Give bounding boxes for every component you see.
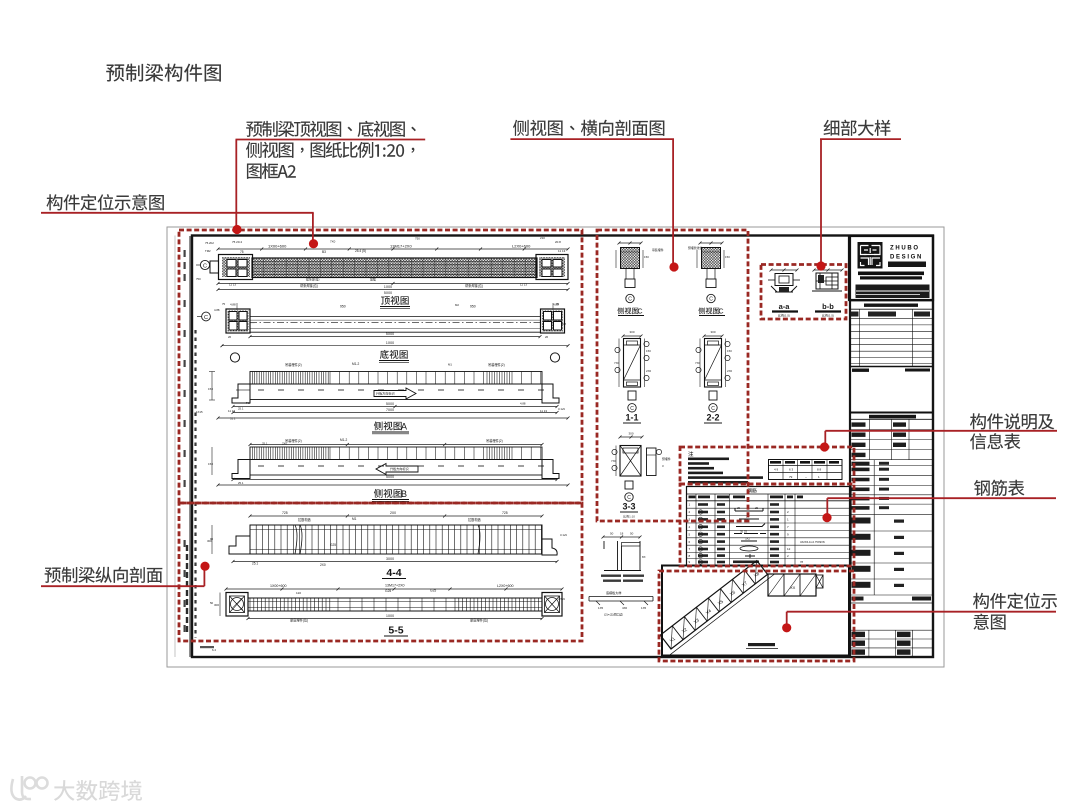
notes text lines <box>688 458 729 461</box>
svg-text:8X: 8X <box>642 555 646 559</box>
leader: side/cross section views label <box>510 138 674 140</box>
beam4 left dim ticks <box>211 447 213 475</box>
svg-text:C: C <box>628 297 632 303</box>
label: 钢筋表 <box>974 480 1024 496</box>
svg-text:4 9: 4 9 <box>774 468 779 472</box>
title block divider under logo <box>849 299 933 301</box>
leader: longitudinal section label <box>41 585 204 587</box>
svg-text:75: 75 <box>240 250 244 254</box>
svg-text:79: 79 <box>789 475 793 479</box>
red dashed box: location diagram <box>659 571 854 661</box>
svg-text:4.88: 4.88 <box>553 303 559 307</box>
svg-text:1X00: 1X00 <box>384 285 392 289</box>
svg-text:300: 300 <box>214 603 219 607</box>
svg-text:210: 210 <box>540 236 545 240</box>
svg-text:11 13: 11 13 <box>540 409 547 413</box>
beam6 top dimension line <box>226 588 562 590</box>
beam side view B (侧视图B) ribbed band <box>250 447 542 460</box>
bottom mini table <box>850 629 933 631</box>
svg-text:13M17+2X0: 13M17+2X0 <box>385 584 404 588</box>
svg-text:2X0: 2X0 <box>390 511 396 515</box>
svg-text:7X0: 7X0 <box>614 361 620 365</box>
leader: detail enlargement label <box>820 138 901 140</box>
svg-text:11 13: 11 13 <box>228 409 235 413</box>
label: 构件说明及信息表 <box>970 413 1054 429</box>
svg-text:110: 110 <box>296 591 301 595</box>
svg-text:L2X0+600: L2X0+600 <box>512 244 531 249</box>
beam1 bottom dimension lines <box>218 283 568 285</box>
svg-text:2X0: 2X0 <box>282 442 287 446</box>
svg-text:25.1: 25.1 <box>238 407 244 411</box>
beam5 denser hooks <box>295 525 297 554</box>
svg-text:L2X0+600: L2X0+600 <box>497 584 514 588</box>
beam side view B right end corbel <box>542 460 559 479</box>
svg-text:7X00: 7X00 <box>386 408 394 412</box>
sheet title row <box>864 304 918 307</box>
svg-text:3.1v9: 3.1v9 <box>558 407 565 411</box>
left margin tiny vertical notes <box>184 250 186 257</box>
svg-text:C: C <box>203 263 207 269</box>
section 侧视图C no.1 <box>619 242 641 244</box>
beam4 dimension lines below <box>233 479 557 481</box>
svg-text:4X0: 4X0 <box>622 606 628 610</box>
svg-text:C: C <box>630 406 634 412</box>
svg-text:M1: M1 <box>352 517 357 521</box>
info table middle rows <box>850 465 933 467</box>
company name lines <box>858 272 924 276</box>
svg-text:4.88: 4.88 <box>214 308 220 312</box>
svg-text:75: 75 <box>222 302 226 306</box>
svg-text:150: 150 <box>725 255 730 259</box>
svg-text:拉筋构造: 拉筋构造 <box>468 517 482 522</box>
beam5 left dim ticks <box>211 525 213 554</box>
svg-text:51.1: 51.1 <box>230 417 236 421</box>
svg-text:90: 90 <box>210 537 214 541</box>
info table header <box>869 415 916 419</box>
svg-text:25.1: 25.1 <box>262 442 268 446</box>
svg-text:1X00+600: 1X00+600 <box>270 584 287 588</box>
svg-text:7X0: 7X0 <box>611 459 617 463</box>
svg-text:300: 300 <box>629 330 634 334</box>
svg-text:25: 25 <box>737 506 741 510</box>
svg-text:5X00: 5X00 <box>386 402 394 406</box>
beam2 label 底视图 <box>380 350 408 359</box>
rebar table column lines <box>695 494 697 565</box>
svg-text:比例(1:5): 比例(1:5) <box>822 313 834 318</box>
svg-text:5X00: 5X00 <box>386 332 394 336</box>
svg-text:B: B <box>401 489 407 499</box>
svg-text:150: 150 <box>727 349 732 353</box>
svg-text:1X00: 1X00 <box>386 341 394 345</box>
svg-text:20.8: 20.8 <box>555 240 561 244</box>
cross section 3-3 figure <box>620 436 642 438</box>
beam top view (顶视图) hatched body <box>252 258 537 278</box>
label: 侧视图、横向剖面图 <box>513 120 664 136</box>
red dashed box: notes and info <box>680 447 854 484</box>
svg-text:300: 300 <box>710 330 715 334</box>
leader: component location sketch label <box>41 212 314 214</box>
svg-text:C: C <box>637 309 642 316</box>
rebar table header row <box>687 493 852 495</box>
svg-text:预埋管线位: 预埋管线位 <box>688 245 703 250</box>
svg-text:75.2b2: 75.2b2 <box>205 241 214 245</box>
beam2 small circles under ends <box>230 353 239 362</box>
svg-text:5X00: 5X00 <box>386 475 394 479</box>
leader: rebar table label <box>827 497 1056 499</box>
rebar table row lines <box>687 507 852 509</box>
svg-text:150: 150 <box>208 387 213 391</box>
svg-text:50: 50 <box>210 601 214 605</box>
svg-text:78: 78 <box>800 560 803 564</box>
label: 构件定位示意图 (top left) <box>47 194 164 210</box>
svg-text:(2)×(2)洞口边: (2)×(2)洞口边 <box>604 612 624 617</box>
info table upper rows <box>850 428 933 430</box>
svg-text:预埋件: 预埋件 <box>662 456 671 461</box>
red dashed box: longitudinal sections group <box>179 503 582 641</box>
svg-text:1-1: 1-1 <box>625 413 638 423</box>
beam6 left end block <box>226 593 248 617</box>
drawing black frame <box>192 236 933 658</box>
grid bubble C beam1 <box>200 260 209 269</box>
red dashed box: cross sections column <box>597 230 748 521</box>
svg-text:5X00: 5X00 <box>384 291 392 295</box>
detail b-b figure <box>814 269 842 271</box>
watermark text 大数跨境 <box>54 780 142 801</box>
svg-text:6.4: 6.4 <box>212 648 216 652</box>
svg-text:26: 26 <box>228 335 232 339</box>
beam top view left stub <box>210 261 219 273</box>
svg-text:750: 750 <box>415 237 420 241</box>
svg-text:C: C <box>204 315 208 321</box>
svg-text:2X0: 2X0 <box>320 563 326 567</box>
grid bubble C beam2 <box>202 312 211 321</box>
svg-text:725: 725 <box>282 511 288 515</box>
svg-text:吊装埋件(2): 吊装埋件(2) <box>488 362 505 367</box>
beam3 dimension lines below <box>233 406 557 408</box>
svg-text:C: C <box>709 297 713 303</box>
svg-text:XX: XX <box>790 585 796 590</box>
beam3 left dim ticks <box>211 372 213 401</box>
svg-text:Z H U B O: Z H U B O <box>890 246 918 252</box>
svg-text:25.1: 25.1 <box>252 562 258 566</box>
svg-text:4.5k9: 4.5k9 <box>558 597 565 601</box>
location diagram horizontal part <box>768 574 816 596</box>
detail a-a figure <box>771 269 797 271</box>
svg-text:1X00+600: 1X00+600 <box>268 244 287 249</box>
beam5 top dimension line <box>250 515 542 517</box>
svg-text:2X0: 2X0 <box>646 369 652 373</box>
beam section 5-5 body <box>248 598 542 611</box>
svg-text:1X00: 1X00 <box>386 614 394 618</box>
svg-text:比例1:10: 比例1:10 <box>623 514 635 519</box>
cross section 2-2 figure <box>704 335 722 337</box>
svg-text:吊装埋件(2): 吊装埋件(2) <box>486 438 503 443</box>
beam side view B direction arrow (left) <box>376 464 418 475</box>
svg-text:A: A <box>401 422 407 432</box>
svg-text:11 13: 11 13 <box>229 283 236 287</box>
svg-text:3X00: 3X00 <box>386 557 394 561</box>
beam side view A direction arrow <box>374 388 416 399</box>
red dashed box: rebar table <box>680 484 854 566</box>
beam side view B left end corbel <box>232 460 250 479</box>
svg-text:吊装埋件: 吊装埋件 <box>652 247 664 252</box>
svg-text:帮条焊接(位): 帮条焊接(位) <box>465 283 483 288</box>
beam top view left end block <box>219 255 253 280</box>
svg-text:18: 18 <box>620 532 624 536</box>
svg-text:13M17+2X0: 13M17+2X0 <box>390 244 412 249</box>
label: 预制梁纵向剖面 <box>45 567 163 583</box>
svg-text:1X15: 1X15 <box>196 410 203 414</box>
binding-edge vertical text strip <box>194 330 196 638</box>
logo seal glyph <box>858 242 883 269</box>
svg-text:7X0: 7X0 <box>695 361 701 365</box>
svg-text:比例(1:5): 比例(1:5) <box>778 313 790 318</box>
svg-text:M2: M2 <box>455 303 459 307</box>
beam3 label 侧视图A <box>374 421 402 430</box>
leader: top/bottom/side views label <box>236 139 426 141</box>
svg-text:3-3: 3-3 <box>622 502 635 512</box>
svg-text:26: 26 <box>545 335 549 339</box>
svg-text:升板方向标识: 升板方向标识 <box>390 466 409 471</box>
address dense block <box>856 285 930 299</box>
svg-text:4-4: 4-4 <box>386 567 401 579</box>
svg-text:75 20.4: 75 20.4 <box>232 240 242 244</box>
label: 细部大样 <box>824 120 891 136</box>
beam6 left dim ticks <box>219 593 221 617</box>
page title 预制梁构件图 <box>106 64 221 82</box>
location diagram caption <box>748 643 775 646</box>
svg-text:8.8: 8.8 <box>562 322 566 326</box>
title block logo box <box>849 236 933 300</box>
svg-text:5-5: 5-5 <box>388 625 403 637</box>
svg-text:b-b: b-b <box>822 302 834 311</box>
svg-text:950: 950 <box>340 305 346 309</box>
project number row <box>850 602 933 604</box>
T-profile detail figure <box>603 536 640 538</box>
svg-text:8 8: 8 8 <box>817 468 822 472</box>
location diagram end X piece <box>816 575 823 588</box>
label: 构件定位示意图 (bottom right) <box>973 593 1057 609</box>
svg-text:2X0: 2X0 <box>727 369 733 373</box>
beam side view A lower band <box>250 384 542 400</box>
svg-text:TM2: TM2 <box>205 249 211 253</box>
svg-text:--: -- <box>805 475 807 479</box>
sheet outer gray border <box>167 227 944 667</box>
rebar table (钢筋表) frame <box>687 487 852 566</box>
svg-text:帮条焊接(位): 帮条焊接(位) <box>300 283 318 288</box>
beam1 label 顶视图 <box>381 296 409 305</box>
notes title 注 <box>688 451 693 456</box>
beam5 bottom dimension <box>233 561 557 563</box>
svg-text:G25: G25 <box>330 543 336 547</box>
svg-text:帮条焊(位): 帮条焊(位) <box>306 277 320 282</box>
section 侧视图C no.2 <box>700 242 722 244</box>
leader: location diagram label <box>787 611 1056 613</box>
svg-text:12: 12 <box>787 547 791 551</box>
label: 预制梁顶视图、底视图、侧视图，图纸比例1:20，图框A2 <box>246 121 416 137</box>
svg-text:4.88: 4.88 <box>520 402 526 406</box>
svg-text:加强: 加强 <box>370 277 376 282</box>
svg-text:4X2X6-11-0.75X9X8.: 4X2X6-11-0.75X9X8. <box>800 540 825 544</box>
svg-text:拉筋构造: 拉筋构造 <box>298 517 312 522</box>
svg-text:吊装埋件(2): 吊装埋件(2) <box>285 362 302 367</box>
svg-text:2-2: 2-2 <box>706 413 719 423</box>
beam side view B lower band <box>250 460 542 476</box>
info table lower rows <box>850 530 933 532</box>
svg-text:梁底埋件(位): 梁底埋件(位) <box>290 618 308 623</box>
beam2 dimension lines <box>250 336 540 338</box>
svg-text:TM: TM <box>246 401 251 405</box>
beam6 bottom dimension <box>248 618 542 620</box>
svg-text:梁底埋件(位): 梁底埋件(位) <box>470 618 488 623</box>
svg-text:11 13: 11 13 <box>520 283 527 287</box>
svg-text:D E S I G N: D E S I G N <box>890 255 921 261</box>
svg-text:25: 25 <box>755 506 759 510</box>
notes mini table <box>769 460 843 480</box>
svg-text:3.1v9: 3.1v9 <box>560 533 567 537</box>
svg-text:300: 300 <box>628 432 633 436</box>
svg-text:G25: G25 <box>430 589 436 593</box>
beam section 4-4 stirrup cage <box>250 525 542 554</box>
svg-text:50: 50 <box>630 532 634 536</box>
cross section 1-1 figure <box>623 335 641 337</box>
svg-text:35 25: 35 25 <box>740 530 747 534</box>
beam side view A (侧视图A) ribbed band <box>250 372 542 385</box>
svg-text:B3: B3 <box>322 250 326 254</box>
signature area empty box <box>850 412 933 414</box>
svg-text:1X5: 1X5 <box>598 606 604 610</box>
beam1 top dimension line <box>218 248 568 250</box>
svg-text:25.4 (5): 25.4 (5) <box>355 249 366 253</box>
svg-text:150: 150 <box>644 255 649 259</box>
svg-text:升板方向标识: 升板方向标识 <box>376 391 395 396</box>
svg-text:11 13: 11 13 <box>558 249 566 253</box>
svg-text:50: 50 <box>610 532 614 536</box>
location diagram black border <box>662 566 849 656</box>
beam bottom view left end block <box>226 309 250 333</box>
svg-text:C: C <box>718 309 723 316</box>
svg-text:G25: G25 <box>385 589 391 593</box>
svg-text:150: 150 <box>208 462 213 466</box>
beam bottom view right end block <box>541 309 565 333</box>
title block left edge <box>849 236 851 658</box>
svg-text:725: 725 <box>502 511 508 515</box>
svg-text:150: 150 <box>646 349 651 353</box>
beam6 right end block <box>542 593 562 617</box>
signature area header <box>852 369 869 372</box>
location diagram diagonal ladder <box>656 557 775 656</box>
leader: component notes and info table label <box>825 430 1057 432</box>
beam5 right end hook <box>542 539 557 555</box>
sheet inner gray margin line <box>174 236 176 658</box>
beam bottom view (底视图) body outline <box>250 316 541 318</box>
beam side view A right end corbel <box>542 384 559 403</box>
svg-text:950: 950 <box>470 305 476 309</box>
svg-text:1X5: 1X5 <box>641 606 647 610</box>
svg-text:吊装埋件(2): 吊装埋件(2) <box>285 438 302 443</box>
red dashed box: plan/side views group <box>179 230 582 503</box>
svg-text:4.88: 4.88 <box>230 303 236 307</box>
T-profile caption lines <box>601 575 621 577</box>
svg-text:M1-2: M1-2 <box>352 362 359 366</box>
svg-text:3X2: 3X2 <box>745 537 750 541</box>
svg-text:C: C <box>627 495 631 501</box>
svg-text:25.1: 25.1 <box>238 481 244 485</box>
svg-text:底模板大样: 底模板大样 <box>606 590 621 595</box>
svg-text:a-a: a-a <box>779 302 791 311</box>
rebar shape glyphs <box>735 508 763 511</box>
svg-text:M1: M1 <box>448 363 452 367</box>
red dashed box: details a-a b-b <box>761 265 846 320</box>
beam5 left end step <box>229 536 250 554</box>
svg-text:7X0: 7X0 <box>330 240 336 244</box>
svg-text:M1-2: M1-2 <box>340 438 347 442</box>
svg-text:750: 750 <box>196 277 201 281</box>
beam4 label 侧视图B <box>374 489 402 498</box>
logo chinese row <box>888 262 926 268</box>
beam top view right end block <box>536 255 568 280</box>
watermark logo glyph <box>11 776 47 800</box>
revision table <box>850 318 933 320</box>
beam side view A left end corbel <box>232 384 250 403</box>
svg-text:C: C <box>711 406 715 412</box>
svg-text:6 3: 6 3 <box>789 468 794 472</box>
